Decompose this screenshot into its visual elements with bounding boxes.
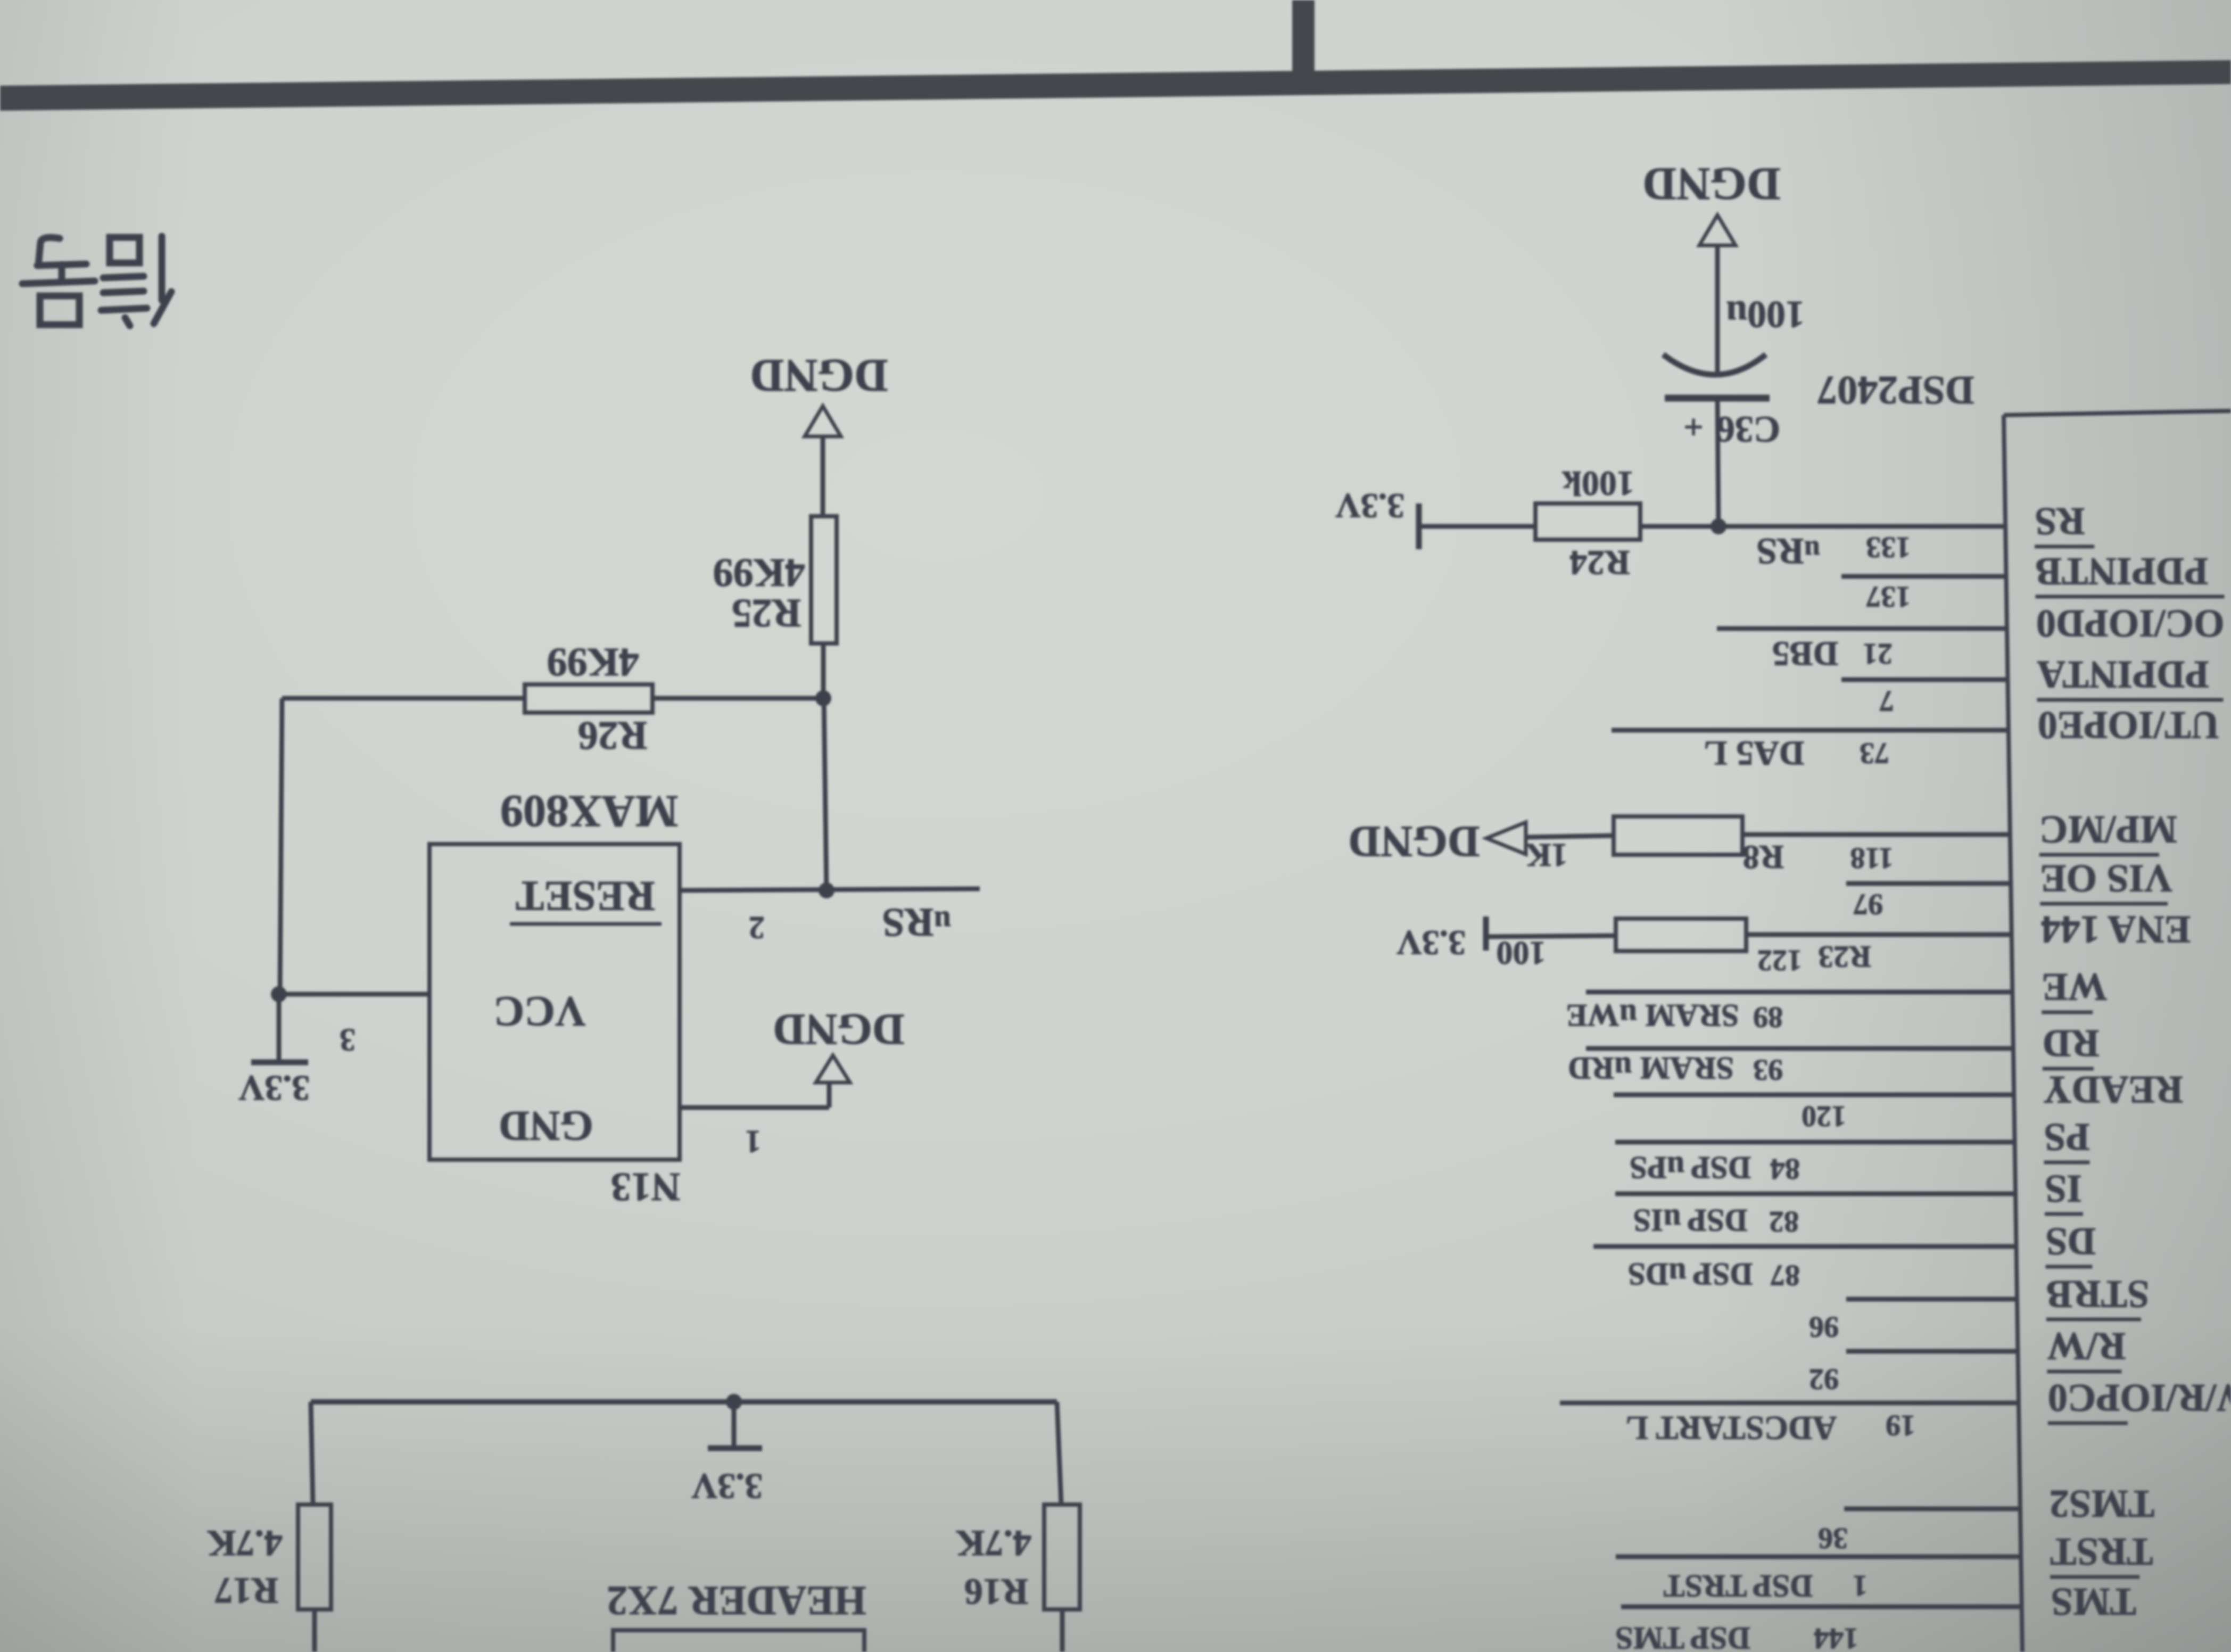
wire R8 to DGND arrow — [1526, 836, 1614, 837]
IC U-DSP2407 box top edge — [2004, 411, 2231, 415]
op-amp U-box MAX809 N13 outline — [429, 844, 680, 1160]
overline of pin name PDPINTA — [2037, 698, 2223, 702]
svg-text:READY: READY — [2043, 1068, 2183, 1111]
overline of pin name RS — [2035, 545, 2094, 549]
svg-text:7: 7 — [1879, 684, 1894, 717]
junction node R25/R26 — [815, 690, 831, 706]
sheet border: vertical divider bar — [1292, 0, 1315, 73]
handwritten note "信号" (upside down) — [22, 236, 171, 326]
overline of pin name WE — [2042, 1011, 2093, 1014]
junction node uRS/RESET — [819, 882, 834, 898]
wire C36 to node — [1717, 398, 1718, 526]
resistor R16 body — [1044, 1505, 1080, 1609]
svg-text:PDPINTA: PDPINTA — [2037, 652, 2209, 696]
wire R24 to 3.3V bar — [1419, 524, 1535, 529]
svg-text:DS: DS — [2045, 1219, 2096, 1263]
power symbol 3.3V bar (R23) — [1483, 916, 1489, 951]
wire pin 120 READY — [1614, 1093, 2014, 1097]
svg-text:DSP TRST: DSP TRST — [1664, 1568, 1813, 1604]
svg-text:DGND: DGND — [750, 350, 888, 401]
wire GND up to DGND arrow — [827, 1083, 832, 1108]
power symbol 3.3V bar (R24) — [1416, 503, 1422, 549]
svg-text:RD: RD — [2043, 1021, 2100, 1065]
wire pin 137 PDPINTB — [1841, 574, 2006, 579]
resistor R23 body — [1616, 919, 1746, 951]
wire node to RESET junction — [824, 698, 827, 890]
svg-text:97: 97 — [1853, 888, 1883, 921]
svg-text:137: 137 — [1866, 580, 1911, 613]
wire R23 to 3.3V bar — [1486, 936, 1616, 937]
wire pin 19 W/R/IOPC0 — [1560, 1401, 2019, 1406]
svg-text:MAX809: MAX809 — [500, 786, 678, 837]
wire pin3 VCC — [279, 992, 429, 997]
svg-text:R17: R17 — [214, 1570, 279, 1611]
svg-text:82: 82 — [1769, 1205, 1799, 1238]
wire 3.3V rail — [311, 1399, 1057, 1405]
power symbol 3.3V bar (rail) — [708, 1445, 762, 1451]
svg-text:96: 96 — [1809, 1310, 1839, 1343]
svg-text:uRS: uRS — [882, 900, 951, 945]
overline of pin name VIS OE — [2040, 902, 2168, 906]
resistor R26 body — [525, 684, 652, 713]
svg-text:TMS: TMS — [2051, 1580, 2136, 1623]
wire rail node to 3.3V bar — [732, 1402, 737, 1448]
svg-text:STRB: STRB — [2046, 1272, 2149, 1316]
overline of pin name MP/MC — [2039, 853, 2159, 857]
svg-text:4K99: 4K99 — [713, 550, 805, 595]
svg-text:3.3V: 3.3V — [691, 1466, 763, 1507]
svg-text:3: 3 — [340, 1022, 356, 1058]
svg-text:PS: PS — [2044, 1115, 2089, 1159]
svg-text:73: 73 — [1860, 737, 1889, 770]
wire pin 89 WE — [1586, 990, 2012, 995]
svg-text:92: 92 — [1809, 1362, 1839, 1395]
resistor R17 body — [298, 1505, 331, 1609]
wire DGND arrow to R25 top — [821, 436, 825, 516]
svg-text:VIS OE: VIS OE — [2040, 856, 2172, 900]
svg-text:36: 36 — [1818, 1522, 1848, 1555]
overline of RESET — [510, 922, 662, 926]
overline of pin name R/W — [2047, 1370, 2121, 1374]
wire pin 36 TMS2 — [1844, 1507, 2020, 1511]
svg-text:100: 100 — [1497, 935, 1546, 971]
capacitor C36 straight plate — [1665, 395, 1770, 402]
svg-text:WE: WE — [2042, 965, 2107, 1009]
wire pin 92 R/W — [1846, 1349, 2018, 1354]
svg-text:N13: N13 — [611, 1164, 681, 1209]
svg-text:4K99: 4K99 — [547, 640, 639, 684]
svg-text:3.3V: 3.3V — [1397, 923, 1466, 962]
svg-text:133: 133 — [1866, 531, 1911, 564]
svg-text:PDPINTB: PDPINTB — [2036, 549, 2209, 593]
svg-text:21: 21 — [1863, 637, 1893, 670]
wire VCC node to 3.3V bar — [277, 994, 282, 1062]
overline of pin name STRB — [2046, 1318, 2141, 1321]
ground DGND symbol (MAX809) — [816, 1055, 850, 1083]
wire pin 21 OC/IOPD0 — [1717, 626, 2007, 631]
svg-text:MP/MC: MP/MC — [2039, 807, 2177, 851]
svg-text:4.7K: 4.7K — [207, 1523, 283, 1564]
overline of pin name PDPINTB — [2036, 595, 2225, 599]
svg-text:RS: RS — [2035, 499, 2085, 543]
svg-text:1: 1 — [1853, 1569, 1868, 1602]
svg-text:118: 118 — [1850, 841, 1894, 874]
svg-text:19: 19 — [1886, 1409, 1915, 1442]
svg-text:84: 84 — [1770, 1152, 1800, 1185]
overline of pin name DS — [2045, 1265, 2092, 1269]
svg-text:DSP uPS: DSP uPS — [1630, 1150, 1751, 1185]
svg-text:OC/IOPD0: OC/IOPD0 — [2036, 601, 2225, 645]
svg-text:DB5: DB5 — [1772, 634, 1839, 673]
svg-text:100k: 100k — [1562, 464, 1634, 503]
svg-text:uRS: uRS — [1756, 531, 1820, 572]
wire DGND arrow to C36 — [1715, 246, 1720, 373]
svg-text:R25: R25 — [732, 591, 801, 635]
wire pin 82 IS — [1615, 1192, 2015, 1196]
resistor R25 body — [811, 516, 837, 643]
wire pin 122 ENA 144 from R23 — [1746, 932, 2012, 937]
net pointer arrow to DGND (R8) — [1486, 822, 1526, 854]
svg-text:2: 2 — [749, 910, 765, 945]
wire pin 84 PS — [1615, 1140, 2014, 1145]
ground DGND symbol (R25) — [805, 406, 841, 436]
wire pin 133 RS — [1718, 524, 2005, 529]
svg-text:R26: R26 — [578, 713, 648, 758]
resistor R24 body — [1535, 503, 1640, 540]
wire pin 118 MP/MC from R8 — [1742, 832, 2010, 837]
svg-text:3.3V: 3.3V — [1335, 486, 1404, 525]
svg-text:R23: R23 — [1818, 940, 1871, 974]
svg-text:R16: R16 — [964, 1571, 1029, 1612]
wire pin 87 DS — [1593, 1244, 2016, 1249]
wire pin 97 VIS OE — [1846, 881, 2011, 886]
svg-text:120: 120 — [1802, 1100, 1846, 1133]
svg-text:HEADER 7X2: HEADER 7X2 — [607, 1578, 866, 1624]
svg-text:SRAM uWE: SRAM uWE — [1566, 998, 1739, 1033]
svg-text:89: 89 — [1753, 1001, 1783, 1034]
overline of pin name TRST — [2050, 1575, 2139, 1579]
wire pin2 RESET to uRS — [680, 889, 980, 890]
svg-text:DSP uDS: DSP uDS — [1627, 1257, 1753, 1292]
svg-text:SRAM uRD: SRAM uRD — [1568, 1051, 1734, 1086]
svg-text:IS: IS — [2045, 1167, 2082, 1210]
svg-text:UT/IOPE0: UT/IOPE0 — [2038, 703, 2219, 747]
junction node 3.3V rail — [726, 1394, 742, 1410]
svg-text:87: 87 — [1770, 1259, 1800, 1292]
overline of pin name IS — [2045, 1212, 2083, 1216]
svg-text:DGND: DGND — [773, 1005, 904, 1054]
svg-text:TMS2: TMS2 — [2050, 1482, 2154, 1525]
svg-text:ADCSTART L: ADCSTART L — [1626, 1409, 1837, 1447]
wire pin 96 STRB — [1846, 1297, 2017, 1302]
svg-text:DSP TMS: DSP TMS — [1615, 1621, 1750, 1652]
svg-text:R24: R24 — [1569, 543, 1630, 582]
svg-text:R/W: R/W — [2047, 1324, 2126, 1368]
overline of pin name RD — [2043, 1067, 2094, 1071]
svg-text:R8: R8 — [1742, 839, 1784, 877]
junction node VCC/3.3V — [271, 986, 287, 1002]
svg-text:DGND: DGND — [1642, 158, 1780, 210]
wire pin 1 TRST — [1616, 1555, 2021, 1559]
wire rail right down to R16 — [1057, 1402, 1061, 1505]
svg-text:DSP uIS: DSP uIS — [1633, 1203, 1747, 1238]
connector HEADER 7X2 outline — [613, 1630, 864, 1652]
overline of pin name PS — [2044, 1161, 2089, 1164]
wire pin1 GND — [680, 1105, 829, 1110]
svg-text:93: 93 — [1753, 1053, 1783, 1086]
svg-text:1: 1 — [745, 1124, 761, 1159]
svg-text:GND: GND — [499, 1102, 593, 1149]
svg-text:DSP2407: DSP2407 — [1817, 368, 1974, 412]
svg-text:DA5 L: DA5 L — [1704, 734, 1805, 773]
sheet border: thick horizontal bar — [0, 60, 2231, 111]
wire R26 right to node — [652, 696, 823, 701]
wire R16 bottom — [1060, 1609, 1065, 1652]
IC U-DSP2407 box left edge — [2004, 415, 2022, 1652]
wire left vertical down to VCC node — [280, 698, 282, 994]
wire pin 93 RD — [1586, 1046, 2013, 1051]
overline of pin name W/R/IOPC0 — [2048, 1422, 2128, 1425]
capacitor C36 curved plate — [1663, 354, 1766, 375]
svg-text:100u: 100u — [1726, 293, 1805, 336]
svg-text:+: + — [1683, 408, 1704, 447]
svg-text:1K: 1K — [1525, 837, 1567, 873]
ground DGND symbol (C36) — [1699, 215, 1736, 245]
wire node to R24 — [1640, 524, 1718, 529]
svg-text:DGND: DGND — [1348, 817, 1480, 866]
wire R26 left — [282, 696, 525, 701]
svg-text:TRST: TRST — [2050, 1530, 2153, 1573]
wire R25 bottom to node — [821, 643, 826, 698]
svg-text:4.7K: 4.7K — [956, 1523, 1031, 1564]
svg-text:ENA 144: ENA 144 — [2041, 907, 2191, 951]
wire pin 144 TMS — [1621, 1605, 2022, 1609]
junction node RS/C36/R24 — [1711, 518, 1726, 534]
resistor R8 body — [1614, 816, 1742, 855]
svg-text:W/R/IOPC0: W/R/IOPC0 — [2048, 1376, 2231, 1419]
power symbol 3.3V bar (MAX809) — [251, 1060, 308, 1065]
svg-text:VCC: VCC — [493, 988, 585, 1035]
wire rail left down to R17 — [311, 1402, 313, 1505]
svg-text:122: 122 — [1757, 944, 1802, 977]
svg-text:144: 144 — [1814, 1622, 1858, 1652]
wire R17 bottom — [312, 1609, 317, 1652]
wire pin 73 UT/IOPE0 — [1612, 728, 2009, 733]
svg-text:3.3V: 3.3V — [238, 1068, 310, 1109]
wire pin 7 PDPINTA — [1841, 678, 2007, 682]
svg-text:C36: C36 — [1716, 409, 1781, 450]
svg-text:RESET: RESET — [516, 872, 655, 919]
